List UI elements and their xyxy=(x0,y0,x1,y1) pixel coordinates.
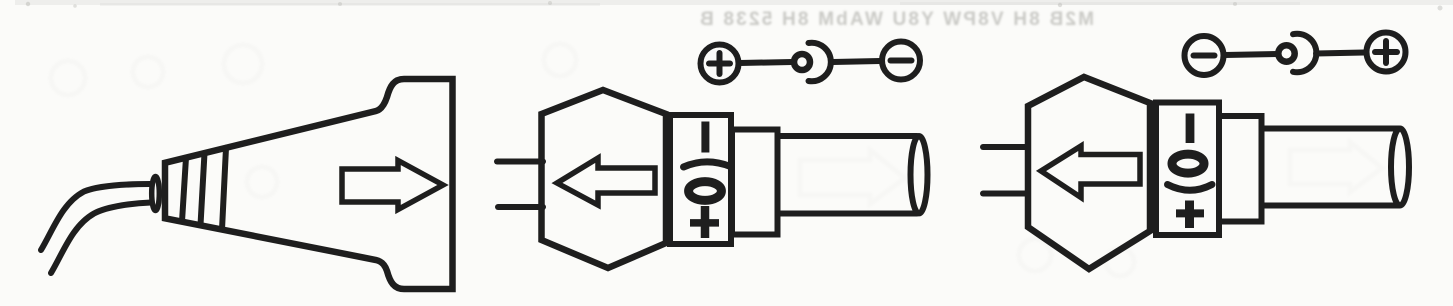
right legend center pin xyxy=(1278,45,1294,61)
svg-text:M2B 8H V8PW Y8U WAbM 8H 5238 B: M2B 8H V8PW Y8U WAbM 8H 5238 B xyxy=(698,9,1094,30)
scanner noise strip (top edge) xyxy=(15,0,1453,11)
middle connector wire upper xyxy=(497,159,543,165)
middle band plus (rotated) xyxy=(690,206,719,238)
right collar xyxy=(1219,116,1262,222)
right band minus (rotated) xyxy=(1186,114,1195,144)
right legend minus terminal xyxy=(1185,36,1224,75)
middle barrel xyxy=(778,136,928,214)
middle legend plus terminal xyxy=(701,45,739,83)
right band 0 (rotated) xyxy=(1172,154,1204,173)
plug ridge line 3 xyxy=(222,148,226,230)
right connector hex body xyxy=(1028,77,1150,269)
plug body outline xyxy=(165,79,453,289)
middle band 0 (rotated) xyxy=(689,182,722,201)
middle legend sleeve arc xyxy=(809,43,831,82)
right legend sleeve arc xyxy=(1293,34,1316,73)
plug strain-relief cap xyxy=(152,177,160,211)
middle collar xyxy=(732,130,778,235)
middle connector arrow (left) xyxy=(557,158,655,205)
plug ridge line 1 xyxy=(182,158,186,222)
right legend plus terminal xyxy=(1367,33,1406,72)
middle legend wire left xyxy=(740,62,792,63)
right barrel xyxy=(1262,129,1410,206)
plug insert arrow (right) xyxy=(342,161,443,210)
middle legend minus terminal xyxy=(882,42,920,80)
middle legend wire right xyxy=(833,61,880,62)
right legend wire right xyxy=(1316,53,1364,54)
ghost text (scan bleed-through) xyxy=(698,9,1094,30)
middle connector hex body xyxy=(542,90,667,268)
right marking band xyxy=(1156,103,1219,236)
right band plus (rotated) xyxy=(1176,201,1204,229)
middle marking band xyxy=(670,115,731,244)
middle connector wire lower xyxy=(498,204,543,210)
ghost bleed circles xyxy=(51,44,1382,276)
middle band arc (rotated sleeve symbol) xyxy=(684,162,731,167)
right legend wire left xyxy=(1225,54,1277,55)
right connector wire upper xyxy=(983,144,1028,150)
right connector wire lower xyxy=(983,191,1028,197)
right band arc (rotated sleeve symbol) xyxy=(1168,185,1213,191)
AC adapter plug cable xyxy=(41,184,151,273)
plug ridge line 2 xyxy=(201,153,205,225)
right connector arrow (left) xyxy=(1041,146,1140,198)
middle legend center pin xyxy=(794,54,810,70)
middle band minus (rotated) xyxy=(701,122,709,153)
